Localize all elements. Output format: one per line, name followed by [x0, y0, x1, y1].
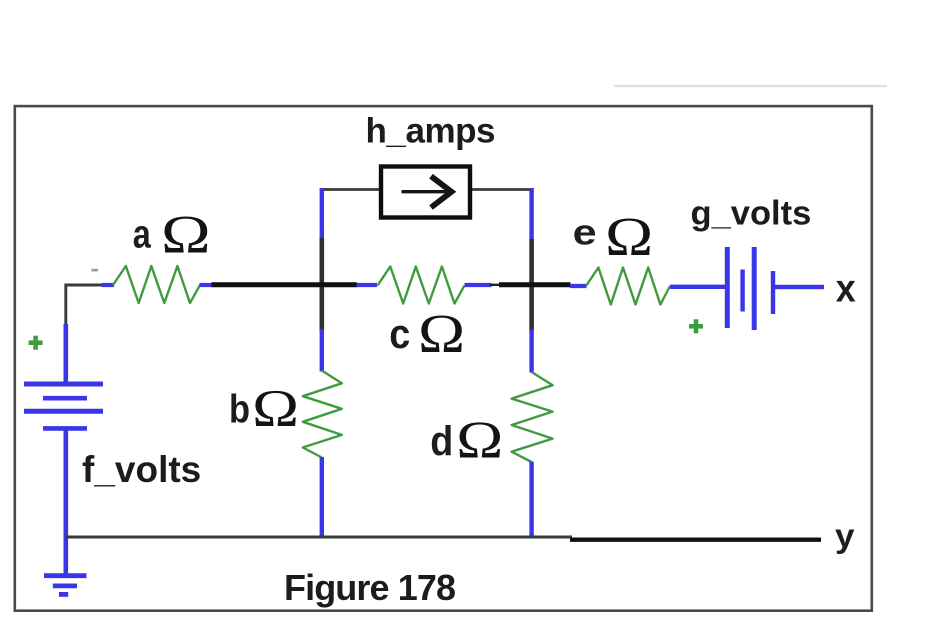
resistor c zigzag: [378, 267, 465, 304]
wire blue stub left of R-c: [357, 283, 378, 287]
wire vertical left branch dark (x=322): [319, 238, 324, 331]
ground bar 2: [53, 584, 77, 589]
resistor d zigzag: [512, 372, 553, 462]
svg-text:h_amps: h_amps: [366, 111, 496, 150]
node bar right thick: [499, 282, 571, 287]
svg-text:Ω: Ω: [418, 303, 465, 364]
battery F plate long 1: [24, 382, 103, 387]
bottom wire black thick: [570, 538, 821, 542]
svg-text:x: x: [836, 267, 856, 310]
svg-text:b: b: [229, 388, 250, 432]
svg-text:Ω: Ω: [605, 206, 653, 267]
svg-text:Figure 178: Figure 178: [284, 567, 455, 608]
plus sign right (green): [689, 319, 703, 333]
border frame: [15, 106, 872, 611]
wire blue battery F bottom lead to ground: [64, 428, 69, 574]
svg-text:d: d: [430, 417, 453, 464]
wire box-left horizontal: [320, 188, 380, 191]
wire battery G to node x: [775, 285, 824, 289]
wire blue above R-d: [529, 329, 533, 373]
battery F plate short 2: [43, 426, 87, 431]
node bar left thick: [212, 282, 358, 287]
svg-text:f_volts: f_volts: [82, 449, 201, 490]
svg-text:c: c: [389, 310, 410, 357]
svg-text:Ω: Ω: [456, 411, 503, 469]
battery F plate long 2: [24, 409, 103, 414]
resistor a zigzag: [113, 266, 200, 303]
resistor b zigzag: [303, 371, 342, 458]
wire vertical left branch blue top (x=322): [320, 188, 324, 240]
wire vertical right branch blue top (x=531.6): [529, 188, 533, 241]
tiny gray dash: [92, 269, 99, 272]
plus sign left (green): [29, 336, 43, 350]
battery G plate long 2: [752, 247, 757, 330]
wire box-right horizontal: [471, 188, 534, 191]
battery G plate short 2: [771, 271, 775, 314]
node thin segment: [490, 284, 500, 286]
current source arrow: [402, 176, 452, 207]
wire blue battery F top lead: [64, 324, 69, 384]
battery G plate long 1: [725, 247, 730, 328]
svg-text:e: e: [573, 212, 597, 253]
faint top-right line: [614, 85, 887, 87]
wire blue stub right of R-c: [465, 283, 492, 287]
current source I1 box: [381, 167, 470, 218]
ground bar 3: [59, 592, 68, 597]
wire blue stub left of R-a: [102, 283, 115, 287]
svg-text:g_volts: g_volts: [691, 195, 812, 233]
svg-text:y: y: [835, 517, 855, 554]
svg-text:a: a: [133, 213, 152, 257]
wire blue stub left of R-e: [570, 284, 587, 288]
wire blue below R-d: [529, 462, 533, 538]
bottom wire gray: [66, 536, 572, 539]
wire blue below R-b: [320, 457, 324, 537]
svg-text:Ω: Ω: [252, 380, 299, 438]
battery F plate short 1: [43, 396, 87, 401]
svg-text:Ω: Ω: [161, 204, 211, 264]
wire vertical right branch dark (x=531.6): [529, 239, 534, 331]
wire top-left corner: [66, 285, 103, 330]
battery G plate short 1: [740, 270, 744, 312]
wire blue stub right of R-a: [200, 283, 213, 287]
resistor e zigzag: [586, 268, 670, 305]
wire blue above R-b: [320, 329, 324, 372]
ground bar 1: [44, 573, 87, 578]
wire blue from R-e to battery G: [670, 285, 725, 289]
